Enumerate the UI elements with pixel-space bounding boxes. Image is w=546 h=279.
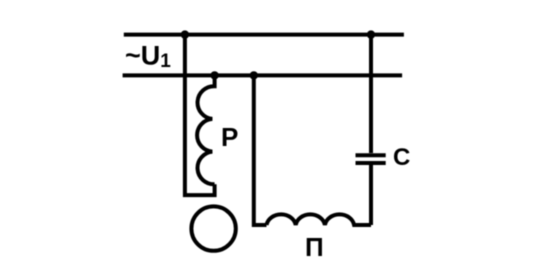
wire top supply rail L1 — [124, 33, 404, 37]
junction dot on L1 at left branch — [181, 30, 189, 38]
wire right branch from L2 down to winding П — [254, 75, 267, 225]
svg-text:P: P — [221, 122, 238, 152]
wire from L1 down to capacitor C top plate — [369, 35, 373, 153]
svg-text:C: C — [393, 144, 410, 171]
inductor P (run winding, 3 left-bulging arcs) — [197, 75, 215, 184]
inductor П (start winding, 3 up-bulging arcs) — [267, 214, 372, 225]
capacitor C top plate — [356, 153, 386, 157]
capacitor C bottom plate — [356, 161, 386, 165]
svg-text:~U1: ~U1 — [125, 41, 171, 73]
motor rotor circle — [191, 206, 235, 250]
wire from capacitor C bottom plate down to winding П — [369, 165, 373, 225]
wire bottom supply rail L2 — [123, 73, 403, 77]
junction dot on L2 at winding P — [210, 71, 218, 79]
junction dot on L2 at winding П branch — [250, 71, 258, 79]
junction dot on L1 at capacitor branch — [367, 30, 375, 38]
wire left branch from L1 down and across to winding P bottom — [185, 35, 215, 196]
svg-text:П: П — [305, 232, 324, 262]
